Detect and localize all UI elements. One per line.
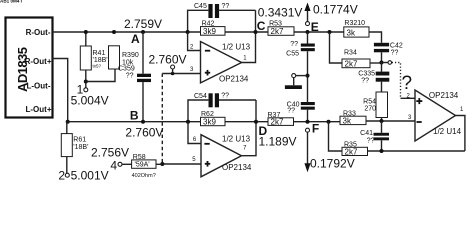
svg-text:R3210: R3210 [344,20,365,27]
capacitor C45 loop [188,3,256,32]
node dot C41 bottom [380,149,384,153]
wire R34 to column [370,62,382,64]
wire rail seg3 [294,31,344,33]
svg-text:2k7: 2k7 [345,59,358,68]
probe arrow down 0.1792V [304,128,354,172]
svg-text:??: ?? [361,78,369,85]
svg-text:2k7: 2k7 [345,147,358,156]
svg-text:1/2 U13: 1/2 U13 [222,134,251,143]
svg-text:2.760V: 2.760V [125,126,163,140]
wire pin3 U13a [162,73,200,75]
svg-text:4: 4 [110,159,117,173]
node F [306,120,310,124]
svg-text:0.3431V: 0.3431V [258,6,303,20]
svg-text:tx5?: tx5? [93,64,102,69]
svg-text:3k9: 3k9 [203,117,216,126]
wire pin2 [188,32,201,51]
wire node A down [142,32,144,74]
capacitor C54 loop [188,93,256,122]
wire pin6 [188,122,201,144]
node dot pin5 junction [160,162,164,166]
svg-text:2.760V: 2.760V [149,53,187,67]
lower rail seg3 [294,121,341,123]
wire pin2 U14 [401,97,416,99]
wire pin5 [162,163,201,165]
svg-text:C359: C359 [118,66,135,73]
svg-text:C45: C45 [194,3,207,10]
svg-text:2.759V: 2.759V [124,17,162,31]
capacitor C42 [374,43,403,63]
svg-text:R41: R41 [93,50,106,57]
svg-text:??: ?? [290,41,298,48]
wire F branch down to R35 [329,122,343,151]
svg-text:1/2 U13: 1/2 U13 [222,42,251,51]
test point 2.760V upper [149,53,187,76]
node D [254,120,258,124]
svg-text:E: E [311,20,319,34]
node dot pin2 junction [186,30,190,34]
resistor R62 [201,111,226,126]
resistor R33 [340,110,366,125]
svg-text:L-Out+: L-Out+ [26,105,52,114]
svg-text:L-Out-: L-Out- [27,82,51,91]
resistor R41 [80,32,107,82]
wire E branch down to R34 [330,32,343,63]
svg-text:B: B [130,109,139,123]
resistor R35 [342,142,368,157]
capacitor C41 [360,121,389,151]
ground [285,85,302,89]
lower rail seg2 [225,121,268,123]
wire U13b output to node D [242,100,257,156]
svg-text:C335: C335 [358,71,375,78]
svg-text:??: ?? [222,3,230,10]
svg-text:5.001V: 5.001V [71,169,109,183]
wire TP1 to R390 bottom [86,69,115,82]
node E [306,30,310,34]
test point 1 [71,80,109,108]
wire R-Out+ down [53,59,68,122]
svg-text:C: C [257,19,266,33]
wire U13a output [242,10,256,62]
resistor R37 [268,112,294,127]
svg-text:3k9: 3k9 [203,27,216,36]
resistor R3210 [344,20,369,37]
node dot R54 bottom [380,119,384,123]
resistor R390 [109,46,139,69]
svg-text:2k7: 2k7 [271,27,284,36]
capacitor C40 [287,102,315,122]
capacitor C55 [286,32,315,102]
chip U AD1835 [6,18,53,118]
wire R-Out- rail [53,31,201,33]
svg-text:C55: C55 [286,51,299,58]
svg-text:5.004V: 5.004V [71,94,109,108]
wire C359 to node B [142,82,144,122]
node C [254,30,258,34]
svg-text:A: A [131,32,140,46]
svg-text:??: ?? [367,137,375,144]
svg-text:2.756V: 2.756V [91,146,129,160]
svg-text:0.1774V: 0.1774V [313,3,358,17]
svg-text:AB1 0M4 I: AB1 0M4 I [0,0,22,4]
svg-text:2k7: 2k7 [271,118,284,127]
node dot C42 bottom [380,61,384,65]
wire rail seg4 to C42 column [369,32,382,43]
svg-text:402Ohm?: 402Ohm? [132,173,156,179]
svg-text:R-Out+: R-Out+ [25,57,52,66]
svg-text:270: 270 [364,106,376,113]
svg-text:C41: C41 [360,130,373,137]
probe arrow up 0.1774V [304,3,357,26]
svg-text:'59A': '59A' [135,162,150,169]
svg-text:OP2134: OP2134 [219,75,249,84]
resistor R58 [118,154,162,179]
resistor R34 [342,49,370,68]
op-amp U14 [415,90,464,141]
svg-text:C42: C42 [390,43,403,50]
svg-text:??: ?? [221,93,229,100]
node dot pin6 junction [186,120,190,124]
svg-text:1/2 U14: 1/2 U14 [433,127,462,136]
node dot F branch [327,120,331,124]
op-amp U13a [201,42,251,84]
svg-text:'18B': '18B' [73,144,88,151]
node dot R390 top [112,30,116,34]
svg-text:3k: 3k [343,116,352,125]
capacitor C335 [358,63,389,85]
svg-text:1.189V: 1.189V [259,135,297,149]
dotted wire to U14 pin2 [392,63,401,99]
node dot R61 top [66,120,70,124]
dashed link + inputs [161,74,163,165]
test point circle C42 [382,61,392,65]
node dot E branch [328,30,332,34]
wire rail seg2 [225,31,268,33]
svg-text:R61: R61 [73,137,86,144]
lower rail wire [68,121,201,123]
svg-text:??: ?? [126,73,134,80]
svg-text:OP2134: OP2134 [222,163,252,172]
resistor R42 [201,21,226,36]
wire U14 output feedback [456,116,465,152]
test point 2 [58,169,108,183]
ground tap [292,74,310,86]
resistor R53 [268,20,294,36]
svg-text:??: ?? [391,50,399,57]
svg-text:C54: C54 [194,93,207,100]
svg-text:F: F [312,121,319,135]
wire R33 to pin3 [366,120,415,122]
svg-text:R34: R34 [344,49,357,56]
resistor R54 [363,82,387,122]
svg-text:R390: R390 [122,52,139,59]
node dot R41 top [84,30,88,34]
capacitor C359 [118,66,151,83]
resistor R61 [61,122,88,173]
svg-text:3k: 3k [347,28,356,37]
svg-text:??: ?? [287,108,295,115]
wire R35 to feedback [368,150,465,152]
svg-text:?: ? [402,73,413,94]
svg-text:R54: R54 [363,99,376,106]
svg-text:OP2134: OP2134 [429,91,459,100]
svg-text:R-Out-: R-Out- [26,28,51,37]
op-amp U13b [201,134,252,177]
svg-text:0.1792V: 0.1792V [310,157,355,171]
svg-text:2: 2 [58,169,65,183]
